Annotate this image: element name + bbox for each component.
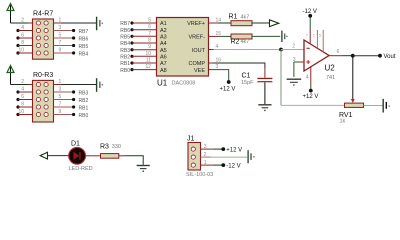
DAC right pin numbers: [216, 18, 222, 71]
wire R1 to arrow terminal: [252, 22, 270, 24]
Vout terminal: [378, 54, 382, 58]
svg-text:LED-RED: LED-RED: [69, 166, 93, 172]
J1 pin numbers: [204, 144, 207, 166]
ground (op-amp pin3): [287, 79, 302, 86]
svg-text:330: 330: [112, 144, 121, 150]
svg-text:15: 15: [216, 31, 222, 37]
output junction: [351, 54, 355, 58]
U1 DAC0808 body: [157, 18, 209, 77]
resistor R2: [231, 34, 253, 45]
svg-text:RB5: RB5: [120, 35, 130, 41]
svg-text:12: 12: [145, 64, 151, 70]
svg-text:VREF+: VREF+: [187, 21, 205, 27]
svg-text:U2: U2: [325, 64, 336, 73]
svg-text:10: 10: [18, 47, 24, 53]
J1 pin2 wire to bar terminal: [201, 156, 212, 158]
pack2 right net wires + labels: [54, 90, 89, 119]
output wire pin6: [329, 55, 342, 57]
svg-text:R0-R3: R0-R3: [33, 72, 53, 79]
pack2 left pin wires: [16, 90, 32, 116]
op-amp top pins 7,1,5: [309, 30, 311, 44]
resistor R3: [100, 144, 121, 159]
pack1 pin1 wire to bar terminal: [54, 22, 62, 24]
svg-text:4k7: 4k7: [241, 14, 250, 20]
pack2 left pin numbers: [18, 79, 24, 115]
svg-text:8: 8: [148, 38, 151, 44]
+12V power terminal (DAC): [227, 80, 231, 84]
svg-text:6: 6: [337, 49, 340, 55]
wire arrow to D1: [48, 155, 69, 157]
VREF- wire to R2: [209, 35, 219, 37]
svg-text:5: 5: [148, 18, 151, 24]
svg-text:+12 V: +12 V: [226, 148, 242, 154]
wire R3 to ground: [119, 155, 125, 157]
svg-text:A5: A5: [160, 48, 167, 54]
svg-text:7: 7: [59, 101, 62, 107]
-12V power terminal (op-amp top): [309, 16, 311, 30]
svg-text:R2: R2: [231, 38, 240, 45]
svg-text:A1: A1: [160, 21, 167, 27]
terminal arrow left (D1): [40, 152, 47, 159]
svg-text:RB6: RB6: [120, 28, 130, 34]
svg-text:COMP: COMP: [189, 61, 206, 67]
svg-text:VEE: VEE: [194, 68, 205, 74]
LED D1: [69, 141, 93, 172]
svg-text:RB0: RB0: [120, 68, 130, 74]
svg-text:RB4: RB4: [79, 51, 89, 57]
feedback wire down to RV1: [280, 50, 282, 106]
COMP wire to C1: [209, 62, 214, 64]
svg-text:9: 9: [148, 44, 151, 50]
svg-text:R4-R7: R4-R7: [33, 11, 53, 18]
svg-text:3: 3: [59, 25, 62, 31]
potentiometer RV1: [339, 103, 364, 124]
svg-text:4: 4: [21, 86, 24, 92]
op-amp pin4 wire to +12V: [310, 67, 312, 83]
ground (C1): [258, 105, 271, 111]
bar terminal (RV1): [383, 99, 390, 113]
VEE wire to +12V: [209, 69, 214, 71]
svg-text:4: 4: [306, 75, 309, 81]
svg-text:DAC0808: DAC0808: [172, 81, 196, 87]
svg-text:RB1: RB1: [79, 105, 89, 111]
power terminal arrow top-left (pack R4-R7): [7, 4, 14, 24]
svg-text:RB3: RB3: [120, 48, 130, 54]
bar terminal (R2): [282, 31, 288, 42]
svg-text:7: 7: [59, 40, 62, 46]
wire D1 to R3: [86, 155, 101, 157]
J1 pin3 wire to +12V: [201, 148, 213, 150]
svg-text:11: 11: [146, 58, 151, 64]
svg-text:2: 2: [292, 44, 295, 50]
svg-text:2: 2: [21, 79, 24, 85]
svg-text:15pF: 15pF: [241, 80, 254, 86]
pack1 left pin wires: [16, 29, 32, 55]
bar terminal (pack1): [97, 17, 104, 31]
op-amp pin3 wire to ground: [299, 61, 304, 63]
svg-text:-12 V: -12 V: [226, 164, 240, 170]
svg-text:4k7: 4k7: [241, 39, 250, 45]
svg-text:Vout: Vout: [384, 54, 396, 60]
svg-text:C1: C1: [242, 73, 251, 80]
ground (R3): [137, 166, 150, 173]
wire arrow to pack2 pin2: [11, 84, 29, 86]
op-amp U2: [304, 40, 335, 81]
svg-text:RB6: RB6: [79, 36, 89, 42]
svg-text:9: 9: [59, 109, 62, 115]
svg-text:1: 1: [59, 79, 62, 85]
svg-text:5: 5: [59, 94, 62, 100]
DAC left pin numbers 5-12: [145, 18, 151, 71]
svg-text:8: 8: [21, 40, 24, 46]
svg-text:RB4: RB4: [120, 41, 130, 47]
svg-text:RB5: RB5: [79, 44, 89, 50]
resistor pack R4-R7: [33, 11, 54, 60]
svg-text:8: 8: [21, 101, 24, 107]
wire arrow to pack pin2: [11, 22, 29, 24]
connector J1: [186, 136, 213, 178]
svg-text:9: 9: [59, 47, 62, 53]
VREF+ wire to R1: [209, 22, 219, 24]
svg-text:+12 V: +12 V: [220, 87, 236, 93]
svg-text:1: 1: [59, 17, 62, 23]
svg-text:6: 6: [148, 24, 151, 30]
svg-text:VREF-: VREF-: [189, 35, 206, 41]
svg-text:10: 10: [18, 109, 24, 115]
svg-text:RB7: RB7: [79, 29, 89, 35]
pack1 right net wires + labels: [54, 29, 89, 58]
resistor R1: [229, 14, 253, 26]
svg-text:10: 10: [145, 51, 151, 57]
svg-text:IOUT: IOUT: [192, 48, 206, 54]
svg-text:RB1: RB1: [120, 61, 130, 67]
svg-text:SIL-100-03: SIL-100-03: [186, 172, 213, 178]
svg-text:U1: U1: [157, 79, 168, 88]
op-amp pin numbers: [292, 33, 339, 81]
wire R2 to bar terminal: [252, 35, 280, 37]
svg-text:4: 4: [21, 25, 24, 31]
capacitor C1: [241, 73, 272, 86]
bar terminal (pack2): [97, 78, 104, 92]
svg-text:D1: D1: [71, 141, 80, 148]
pack1 left pin numbers: [18, 17, 24, 53]
pack1 right pin numbers: [59, 17, 62, 53]
svg-text:741: 741: [326, 75, 335, 81]
power terminal arrow (pack R0-R3): [7, 66, 14, 85]
svg-text:5: 5: [59, 32, 62, 38]
svg-text:A2: A2: [160, 28, 167, 34]
IOUT wire to op-amp pin2: [209, 49, 214, 51]
svg-text:RB0: RB0: [79, 113, 89, 119]
power arrow terminal (right): [270, 20, 279, 27]
svg-text:3: 3: [59, 86, 62, 92]
svg-text:R1: R1: [229, 14, 238, 21]
svg-text:A4: A4: [160, 41, 167, 47]
svg-text:2: 2: [21, 17, 24, 23]
svg-text:6: 6: [21, 32, 24, 38]
svg-text:A7: A7: [160, 61, 167, 67]
svg-text:A3: A3: [160, 35, 167, 41]
svg-text:J1: J1: [187, 136, 195, 143]
J1 pin1 wire to -12V: [201, 164, 213, 166]
svg-text:RB2: RB2: [120, 55, 130, 61]
svg-text:-12 V: -12 V: [303, 9, 317, 15]
svg-text:RB3: RB3: [79, 90, 89, 96]
svg-text:6: 6: [21, 94, 24, 100]
svg-text:R3: R3: [100, 144, 109, 151]
RV1 right wire to bar terminal: [364, 105, 383, 107]
svg-text:7: 7: [148, 31, 151, 37]
resistor pack R0-R3: [33, 72, 54, 122]
svg-text:A8: A8: [160, 68, 167, 74]
wire output junction down to RV1 wiper: [352, 56, 354, 100]
pack2 right pin numbers: [59, 79, 62, 115]
pack2 pin1 wire to bar terminal: [54, 84, 62, 86]
svg-text:A6: A6: [160, 55, 167, 61]
svg-text:1k: 1k: [340, 118, 346, 124]
DAC input net labels + wires: [120, 21, 156, 74]
svg-text:RB2: RB2: [79, 98, 89, 104]
junction IOUT/feedback: [279, 48, 283, 52]
bar terminal (J1 pin2): [248, 150, 255, 163]
svg-text:+12 V: +12 V: [303, 94, 319, 100]
svg-text:RB7: RB7: [120, 21, 130, 27]
